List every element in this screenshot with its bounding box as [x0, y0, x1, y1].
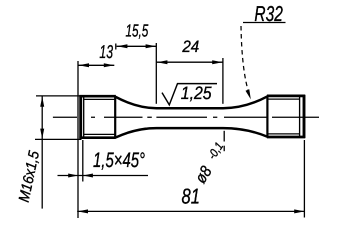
svg-text:13: 13	[99, 41, 113, 62]
svg-text:81: 81	[181, 185, 199, 209]
svg-text:1,25: 1,25	[181, 83, 213, 103]
svg-text:R32: R32	[254, 2, 282, 26]
svg-text:1,5×45°: 1,5×45°	[93, 149, 145, 172]
svg-text:15,5: 15,5	[125, 21, 148, 41]
svg-text:24: 24	[181, 38, 199, 56]
